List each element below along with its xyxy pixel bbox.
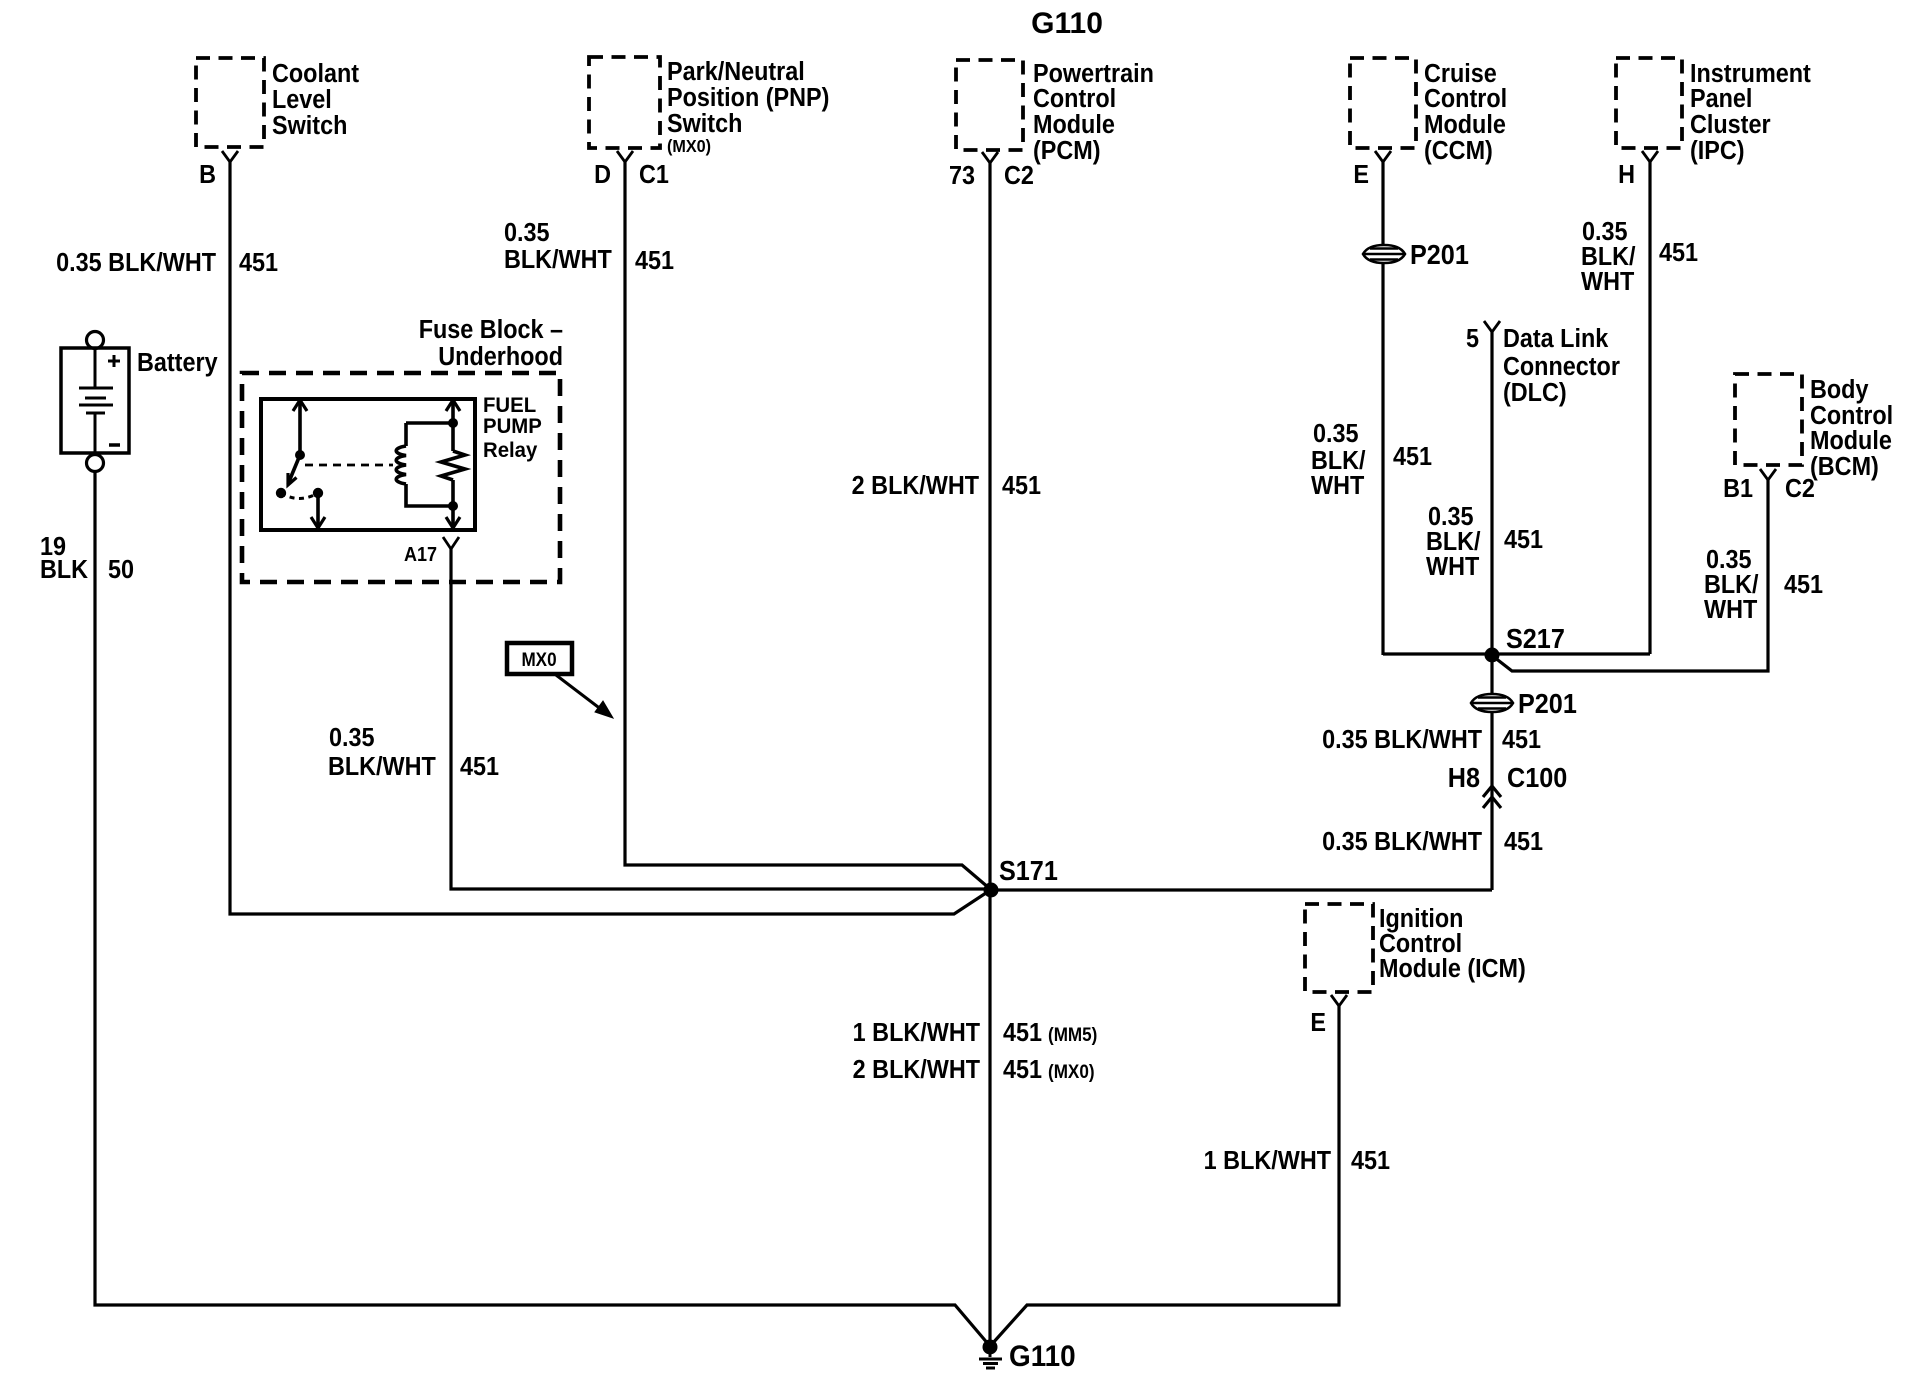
svg-text:50: 50 bbox=[108, 556, 134, 584]
svg-text:S171: S171 bbox=[999, 855, 1058, 887]
wire: PCM 73/C2 down through S171 to G110 (2 BLK/WHT 451) bbox=[852, 163, 1042, 1347]
svg-text:Level: Level bbox=[272, 86, 332, 114]
node G110 title bbox=[1031, 7, 1103, 40]
svg-text:Cluster: Cluster bbox=[1690, 111, 1771, 139]
in-line connector P201 (on DLC wire below S217) bbox=[1322, 688, 1577, 755]
svg-text:Switch: Switch bbox=[667, 110, 742, 138]
relay switch arm (common pin, arrow up) bbox=[276, 400, 307, 498]
svg-text:0.35 BLK/WHT: 0.35 BLK/WHT bbox=[56, 249, 216, 277]
connector terminal B of Coolant Level Switch bbox=[199, 151, 238, 189]
svg-text:(MM5): (MM5) bbox=[1048, 1024, 1097, 1045]
wire: fuse block A17 to S171 (0.35 BLK/WHT 451) bbox=[328, 549, 986, 889]
svg-text:PUMP: PUMP bbox=[483, 415, 542, 438]
svg-text:C2: C2 bbox=[1004, 162, 1034, 190]
svg-text:G110: G110 bbox=[1031, 7, 1103, 40]
svg-text:(MX0): (MX0) bbox=[1048, 1061, 1095, 1082]
svg-text:BLK/WHT: BLK/WHT bbox=[328, 753, 436, 781]
svg-text:WHT: WHT bbox=[1581, 268, 1634, 296]
wire: ICM E to G110 (1 BLK/WHT 451) bbox=[992, 1006, 1390, 1344]
svg-text:451: 451 bbox=[1784, 571, 1823, 599]
svg-text:Position (PNP): Position (PNP) bbox=[667, 84, 829, 112]
module: Cruise Control Module (CCM) (dashed box) bbox=[1350, 58, 1507, 165]
svg-text:B: B bbox=[199, 161, 216, 189]
svg-text:FUEL: FUEL bbox=[483, 394, 536, 417]
svg-text:Underhood: Underhood bbox=[438, 343, 563, 371]
svg-text:(PCM): (PCM) bbox=[1033, 137, 1101, 165]
svg-text:Module: Module bbox=[1810, 427, 1892, 455]
svg-text:MX0: MX0 bbox=[521, 649, 556, 670]
svg-text:H8: H8 bbox=[1448, 762, 1480, 794]
relay switch N.O. contact (arrow down) bbox=[281, 488, 325, 528]
svg-text:451: 451 bbox=[1351, 1147, 1390, 1175]
svg-text:Body: Body bbox=[1810, 376, 1869, 404]
svg-text:Connector: Connector bbox=[1503, 353, 1620, 381]
module: Coolant Level Switch (dashed box) bbox=[196, 58, 359, 147]
svg-text:WHT: WHT bbox=[1704, 596, 1757, 624]
module: Powertrain Control Module (PCM) (dashed box) bbox=[956, 60, 1154, 165]
connector terminal A17 of fuse block bbox=[404, 537, 459, 566]
battery B+ bbox=[61, 332, 218, 472]
svg-text:D: D bbox=[594, 161, 611, 189]
connector terminal E of CCM bbox=[1353, 151, 1391, 189]
module: Ignition Control Module (ICM) (dashed box) bbox=[1305, 904, 1526, 992]
svg-text:Relay: Relay bbox=[483, 439, 538, 462]
svg-text:0.35: 0.35 bbox=[504, 219, 550, 247]
svg-text:451: 451 bbox=[635, 247, 674, 275]
module: Instrument Panel Cluster (IPC) (dashed box) bbox=[1616, 58, 1811, 165]
svg-text:451: 451 bbox=[1504, 526, 1543, 554]
wire: IPC H to S217 (0.35 BLK/WHT 451) bbox=[1581, 162, 1698, 654]
module: Park/Neutral Position (PNP) Switch (dashed box) bbox=[589, 57, 829, 156]
connector terminal 5 of Data Link Connector (DLC) bbox=[1466, 321, 1620, 407]
svg-text:(BCM): (BCM) bbox=[1810, 453, 1879, 481]
MX0 callout box with arrow bbox=[507, 643, 613, 718]
svg-text:2 BLK/WHT: 2 BLK/WHT bbox=[852, 472, 979, 500]
svg-text:Module: Module bbox=[1033, 111, 1115, 139]
in-line connector C100 terminal H8 bbox=[1322, 762, 1567, 857]
svg-text:C100: C100 bbox=[1507, 762, 1567, 794]
connector terminal B1 / C2 of BCM bbox=[1723, 469, 1815, 503]
svg-text:WHT: WHT bbox=[1311, 472, 1364, 500]
svg-text:451: 451 bbox=[1003, 1019, 1042, 1047]
svg-text:(IPC): (IPC) bbox=[1690, 137, 1745, 165]
svg-text:451: 451 bbox=[239, 249, 278, 277]
svg-text:2 BLK/WHT: 2 BLK/WHT bbox=[853, 1056, 980, 1084]
wire: DLC 5 down through S217 and P201 to C100 (0.35 BLK/WHT 451) bbox=[1426, 332, 1543, 890]
wire: battery negative to G110 (19 BLK 50) bbox=[40, 472, 989, 1345]
svg-text:Control: Control bbox=[1033, 85, 1116, 113]
svg-text:Fuse Block –: Fuse Block – bbox=[419, 316, 563, 344]
svg-text:451: 451 bbox=[1002, 472, 1041, 500]
svg-text:Control: Control bbox=[1424, 85, 1507, 113]
svg-text:C1: C1 bbox=[639, 161, 669, 189]
svg-text:451: 451 bbox=[1393, 443, 1432, 471]
svg-text:451: 451 bbox=[1504, 828, 1543, 856]
relay resistor bbox=[441, 400, 465, 528]
connector terminal H of IPC bbox=[1618, 151, 1658, 189]
svg-text:5: 5 bbox=[1466, 325, 1479, 353]
svg-text:451: 451 bbox=[1502, 726, 1541, 754]
svg-text:(DLC): (DLC) bbox=[1503, 379, 1567, 407]
svg-text:0.35 BLK/WHT: 0.35 BLK/WHT bbox=[1322, 828, 1482, 856]
svg-text:451: 451 bbox=[1659, 239, 1698, 267]
svg-text:1 BLK/WHT: 1 BLK/WHT bbox=[1204, 1147, 1331, 1175]
connector terminal D / C1 of PNP switch bbox=[594, 151, 669, 189]
svg-text:(CCM): (CCM) bbox=[1424, 137, 1493, 165]
svg-text:0.35 BLK/WHT: 0.35 BLK/WHT bbox=[1322, 726, 1482, 754]
svg-text:P201: P201 bbox=[1518, 688, 1577, 720]
svg-text:E: E bbox=[1310, 1009, 1326, 1037]
wire: PNP switch C1 to S171 (0.35 BLK/WHT 451) bbox=[504, 162, 989, 888]
svg-text:BLK: BLK bbox=[40, 556, 88, 584]
svg-text:Battery: Battery bbox=[137, 349, 218, 377]
svg-text:H: H bbox=[1618, 161, 1635, 189]
svg-text:Coolant: Coolant bbox=[272, 60, 359, 88]
wire: S217 horizontal tie (CCM to IPC) bbox=[1383, 652, 1650, 655]
splice S171 bbox=[984, 855, 1059, 898]
connector terminal E of ICM bbox=[1310, 995, 1347, 1037]
svg-text:Data Link: Data Link bbox=[1503, 325, 1608, 353]
Fuse Block - Underhood (dashed box) bbox=[242, 316, 563, 582]
svg-text:Module (ICM): Module (ICM) bbox=[1379, 955, 1526, 983]
svg-text:1 BLK/WHT: 1 BLK/WHT bbox=[853, 1019, 980, 1047]
svg-text:E: E bbox=[1353, 161, 1369, 189]
wire: S171 to C100 (horizontal run) bbox=[991, 888, 1492, 891]
module: Body Control Module (BCM) (dashed box) bbox=[1735, 374, 1893, 481]
svg-text:Park/Neutral: Park/Neutral bbox=[667, 58, 805, 86]
svg-text:B1: B1 bbox=[1723, 475, 1753, 503]
svg-text:G110: G110 bbox=[1009, 1340, 1076, 1373]
svg-text:0.35: 0.35 bbox=[329, 724, 375, 752]
svg-text:P201: P201 bbox=[1410, 239, 1469, 271]
svg-text:BLK/WHT: BLK/WHT bbox=[504, 246, 612, 274]
splice S217 bbox=[1485, 623, 1565, 663]
svg-text:S217: S217 bbox=[1506, 623, 1565, 655]
wire: CCM E to S217 (0.35 BLK/WHT 451) bbox=[1311, 162, 1432, 655]
svg-text:451: 451 bbox=[1003, 1056, 1042, 1084]
wire: BCM B1 to S217 (0.35 BLK/WHT 451) bbox=[1494, 480, 1823, 671]
in-line connector P201 (on CCM wire) bbox=[1363, 239, 1469, 271]
svg-text:0.35: 0.35 bbox=[1313, 420, 1359, 448]
wire: Coolant Level Switch B to S171 (0.35 BLK/WHT 451) bbox=[56, 162, 989, 914]
svg-text:WHT: WHT bbox=[1426, 553, 1479, 581]
svg-text:451: 451 bbox=[460, 753, 499, 781]
wire labels: 1 BLK/WHT 451 (MM5) / 2 BLK/WHT 451 (MX0) below S171 bbox=[853, 1019, 1098, 1084]
relay actuation dashed link bbox=[305, 464, 393, 467]
svg-text:(MX0): (MX0) bbox=[667, 136, 711, 156]
svg-text:A17: A17 bbox=[404, 544, 437, 566]
svg-text:C2: C2 bbox=[1785, 475, 1815, 503]
svg-text:73: 73 bbox=[949, 162, 975, 190]
svg-text:Panel: Panel bbox=[1690, 85, 1752, 113]
ground G110 bbox=[979, 1340, 1076, 1374]
connector terminal 73 / C2 of PCM bbox=[949, 152, 1034, 190]
FUEL PUMP Relay box bbox=[261, 394, 542, 530]
svg-text:Module: Module bbox=[1424, 111, 1506, 139]
svg-text:Switch: Switch bbox=[272, 112, 347, 140]
relay coil bbox=[396, 418, 458, 511]
